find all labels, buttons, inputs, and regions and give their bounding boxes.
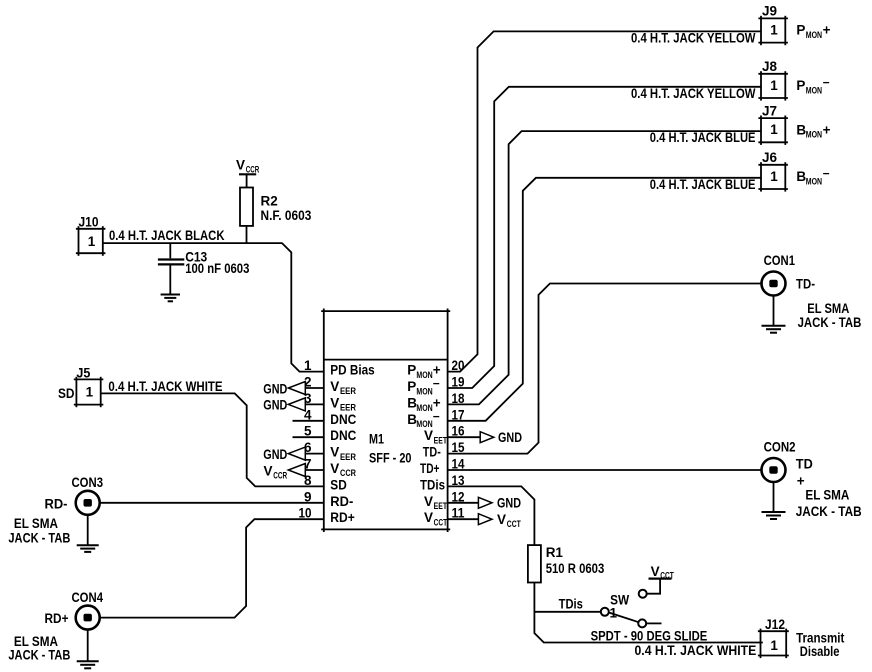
svg-text:V: V — [330, 395, 339, 410]
wire net TD- (pin 15 to CON1) — [448, 284, 762, 454]
ground (below CON4) — [77, 660, 99, 662]
switch SW throw contact (upper) — [639, 590, 647, 598]
svg-text:JACK - TAB: JACK - TAB — [796, 504, 862, 519]
svg-text:1: 1 — [770, 78, 778, 93]
svg-text:J7: J7 — [762, 103, 777, 118]
wire net BMON- (pin 17 to J6) — [448, 178, 761, 421]
svg-text:V: V — [264, 463, 273, 478]
svg-text:EER: EER — [340, 452, 356, 462]
svg-text:GND: GND — [263, 398, 287, 413]
wire net PMON+ (pin 20 to J9) — [448, 31, 761, 371]
svg-text:SPDT - 90 DEG SLIDE: SPDT - 90 DEG SLIDE — [591, 628, 708, 643]
wire TDis branch to switch — [534, 611, 600, 613]
connector CON1 (EL SMA) — [762, 272, 786, 296]
svg-text:19: 19 — [452, 375, 465, 390]
ground flag GND on pin 3 — [288, 398, 305, 411]
svg-text:TD-: TD- — [796, 277, 815, 292]
svg-text:JACK - TAB: JACK - TAB — [8, 647, 70, 662]
svg-text:GND: GND — [497, 496, 521, 511]
svg-text:0.4 H.T. JACK YELLOW: 0.4 H.T. JACK YELLOW — [631, 86, 756, 101]
svg-text:TD-: TD- — [423, 445, 441, 460]
svg-text:0.4 H.T. JACK BLUE: 0.4 H.T. JACK BLUE — [650, 177, 756, 192]
svg-text:MON: MON — [806, 85, 822, 95]
switch SW blade — [609, 613, 639, 623]
wire net PD Bias (J10 to pin 1) — [103, 243, 324, 372]
svg-text:P: P — [796, 78, 805, 93]
svg-text:CON1: CON1 — [764, 253, 796, 268]
connector CON4 (EL SMA) — [76, 606, 100, 630]
svg-text:J5: J5 — [76, 366, 90, 381]
svg-text:0.4 H.T. JACK BLUE: 0.4 H.T. JACK BLUE — [650, 130, 756, 145]
svg-text:J12: J12 — [765, 617, 785, 632]
connector J5 (0.4 H.T. jack) — [74, 378, 104, 380]
svg-text:V: V — [424, 494, 433, 509]
svg-text:J10: J10 — [79, 214, 99, 229]
svg-text:+: + — [433, 395, 441, 410]
wire net PMON- (pin 19 to J8) — [448, 87, 761, 388]
svg-text:V: V — [330, 445, 339, 460]
svg-text:EL SMA: EL SMA — [805, 488, 849, 503]
svg-text:18: 18 — [452, 391, 465, 406]
svg-text:J8: J8 — [762, 59, 778, 74]
svg-text:17: 17 — [452, 407, 465, 422]
svg-text:CCT: CCT — [507, 519, 521, 529]
wire C13 to ground — [169, 264, 171, 293]
svg-text:−: − — [823, 75, 830, 89]
pin 4 stub (DNC) — [293, 420, 324, 422]
switch SW throw contact (lower) — [638, 619, 646, 627]
wire CON1 to ground — [773, 296, 775, 326]
svg-text:SD: SD — [330, 477, 347, 492]
svg-text:V: V — [330, 379, 339, 394]
power flag V_CCR on pin 7 — [288, 464, 305, 477]
svg-text:1: 1 — [770, 22, 778, 37]
svg-text:RD+: RD+ — [45, 611, 69, 626]
wire CON4 to ground — [87, 630, 89, 661]
svg-text:CCT: CCT — [660, 570, 674, 580]
svg-text:CON3: CON3 — [72, 475, 104, 490]
svg-text:P: P — [796, 23, 805, 38]
svg-text:EET: EET — [434, 501, 448, 511]
svg-text:MON: MON — [416, 386, 432, 396]
svg-text:+: + — [823, 23, 831, 38]
connector J8 (0.4 H.T. jack) — [758, 73, 788, 75]
capacitor C13 — [158, 258, 184, 260]
svg-text:CON4: CON4 — [72, 590, 104, 605]
svg-text:+: + — [433, 363, 441, 378]
svg-text:CCR: CCR — [273, 471, 287, 481]
svg-text:1: 1 — [86, 384, 94, 399]
wire stub from lower throw — [646, 622, 661, 624]
wire net SD (J5 to pin 8) — [101, 393, 324, 486]
svg-text:J6: J6 — [762, 150, 778, 165]
connector CON3 (EL SMA) — [76, 491, 100, 515]
svg-text:GND: GND — [263, 447, 287, 462]
wire C13 tap — [169, 243, 171, 258]
svg-text:20: 20 — [452, 358, 465, 373]
ground (below CON1) — [762, 325, 786, 327]
svg-text:RD-: RD- — [45, 496, 68, 511]
pin 5 stub (DNC) — [293, 436, 324, 438]
svg-text:SW: SW — [610, 593, 629, 608]
svg-text:MON: MON — [416, 370, 432, 380]
connector J7 (0.4 H.T. jack) — [758, 117, 788, 119]
svg-text:R1: R1 — [546, 545, 564, 560]
svg-text:−: − — [433, 409, 440, 423]
svg-text:MON: MON — [806, 176, 822, 186]
connector CON2 (EL SMA) — [762, 458, 786, 482]
svg-text:GND: GND — [498, 430, 522, 445]
svg-text:−: − — [433, 377, 440, 391]
svg-text:R2: R2 — [261, 193, 278, 208]
svg-text:MON: MON — [806, 130, 822, 140]
ground flag GND on pin 16 — [448, 436, 481, 438]
svg-text:1: 1 — [770, 638, 778, 653]
switch SW pole contact — [601, 608, 609, 616]
svg-text:P: P — [407, 363, 416, 378]
svg-text:V: V — [497, 512, 506, 527]
svg-text:100 nF 0603: 100 nF 0603 — [185, 261, 250, 276]
svg-text:MON: MON — [806, 30, 822, 40]
svg-text:P: P — [407, 379, 416, 394]
svg-text:TDis: TDis — [559, 597, 583, 612]
svg-text:RD+: RD+ — [330, 510, 355, 525]
ground (below C13) — [161, 294, 180, 296]
svg-text:V: V — [236, 158, 245, 173]
svg-text:PD Bias: PD Bias — [330, 363, 374, 378]
svg-text:0.4 H.T. JACK WHITE: 0.4 H.T. JACK WHITE — [108, 379, 222, 394]
svg-text:EER: EER — [340, 386, 356, 396]
svg-text:TD+: TD+ — [420, 461, 440, 476]
svg-text:JACK - TAB: JACK - TAB — [8, 531, 70, 546]
svg-text:GND: GND — [263, 381, 287, 396]
svg-text:1: 1 — [770, 122, 778, 137]
svg-text:1: 1 — [770, 169, 778, 184]
svg-text:J9: J9 — [762, 4, 777, 19]
wire CON3 to ground — [87, 515, 89, 545]
power flag V_CCT on pin 11 — [448, 518, 479, 520]
svg-text:RD-: RD- — [330, 494, 353, 509]
svg-text:TDis: TDis — [420, 477, 445, 492]
wire net TDis (pin 13 to R1) — [448, 486, 535, 545]
connector J12 (0.4 H.T. jack) — [758, 630, 789, 632]
svg-text:CON2: CON2 — [764, 439, 796, 454]
connector J6 (0.4 H.T. jack) — [758, 164, 788, 166]
connector J10 (0.4 H.T. jack) — [76, 228, 106, 230]
wire R1 to junction and J12 — [534, 583, 762, 643]
svg-text:EL SMA: EL SMA — [14, 516, 58, 531]
wire net BMON+ (pin 18 to J7) — [448, 131, 761, 404]
ground flag GND on pin 6 — [288, 447, 305, 460]
svg-text:1: 1 — [88, 234, 96, 249]
svg-text:V: V — [424, 428, 433, 443]
svg-text:0.4 H.T. JACK BLACK: 0.4 H.T. JACK BLACK — [109, 228, 225, 243]
wire R2 to net — [246, 226, 248, 243]
wire net RD- (CON3 to pin 9) — [100, 502, 324, 504]
wire CON2 to ground — [773, 482, 775, 512]
svg-text:V: V — [330, 461, 339, 476]
power V_CCT supply symbol (switch) — [649, 577, 672, 579]
svg-text:DNC: DNC — [330, 412, 356, 427]
ground (below CON3) — [77, 544, 99, 546]
ground flag GND on pin 12 — [448, 502, 479, 504]
svg-text:M1: M1 — [369, 432, 384, 447]
svg-text:0.4 H.T. JACK YELLOW: 0.4 H.T. JACK YELLOW — [631, 31, 756, 46]
ground (below CON2) — [762, 511, 786, 513]
svg-text:JACK - TAB: JACK - TAB — [798, 315, 862, 330]
svg-text:510 R 0603: 510 R 0603 — [546, 561, 605, 576]
svg-text:SFF - 20: SFF - 20 — [369, 451, 412, 466]
wire net RD+ (CON4 to pin 10) — [100, 519, 324, 617]
resistor R1 — [528, 545, 541, 582]
resistor R2 — [240, 188, 253, 226]
ground flag GND on pin 2 — [288, 382, 305, 395]
op-amp/IC U1 M1 SFF-20 body — [321, 310, 450, 312]
connector J9 (0.4 H.T. jack) — [758, 17, 788, 19]
svg-text:SD: SD — [58, 386, 75, 401]
svg-text:−: − — [823, 166, 830, 180]
svg-text:+: + — [797, 473, 805, 488]
svg-text:Disable: Disable — [800, 644, 840, 659]
svg-text:+: + — [823, 122, 831, 137]
svg-text:0.4 H.T. JACK WHITE: 0.4 H.T. JACK WHITE — [635, 643, 757, 658]
svg-text:CCT: CCT — [434, 518, 448, 528]
wire upper throw to V_CCT — [647, 579, 660, 594]
svg-text:V: V — [424, 510, 433, 525]
svg-text:N.F. 0603: N.F. 0603 — [261, 208, 312, 223]
svg-text:V: V — [651, 564, 660, 579]
svg-text:TD: TD — [796, 457, 813, 472]
wire net TD+ (pin 14 to CON2) — [448, 469, 762, 471]
svg-text:DNC: DNC — [330, 428, 356, 443]
svg-text:MON: MON — [416, 403, 432, 413]
